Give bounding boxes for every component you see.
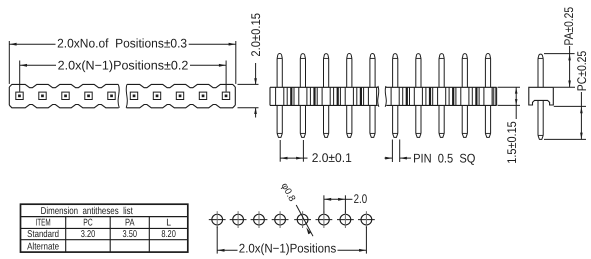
svg-text:ITEM: ITEM <box>36 218 51 229</box>
side view pin 9 <box>461 54 469 138</box>
svg-text:PA±0.25: PA±0.25 <box>562 7 576 46</box>
svg-text:Standard: Standard <box>27 229 59 240</box>
side view pin 2 <box>299 54 307 138</box>
top view body outline (right segment) <box>126 84 235 107</box>
bottom view hole 7 <box>337 211 354 228</box>
side view body (left segment) <box>270 87 378 105</box>
dimension 2.0xNo.of Positions ±0.3 <box>9 37 236 84</box>
dimension 2.0±0.15 (row width) <box>238 13 264 118</box>
bottom view hole 3 <box>251 211 268 228</box>
side view pin 6 <box>391 54 399 138</box>
svg-text:2.0x(N−1)Positions: 2.0x(N−1)Positions <box>239 242 336 256</box>
dimension PA±0.25 <box>544 7 576 87</box>
svg-text:Dimension antitheses list: Dimension antitheses list <box>41 206 133 217</box>
svg-text:PIN 0.5 SQ: PIN 0.5 SQ <box>413 152 475 166</box>
side view pin 7 <box>414 54 422 138</box>
side view pin 10 <box>484 54 492 138</box>
side view pin 4 <box>345 54 353 138</box>
svg-text:2.0x(N−1)Positions±0.2: 2.0x(N−1)Positions±0.2 <box>58 59 189 73</box>
bottom view hole 5 <box>294 211 311 228</box>
dimension 2.0±0.1 (pin pitch) <box>280 140 352 165</box>
bottom view hole 8 <box>358 211 375 228</box>
top view pin squares <box>16 92 230 99</box>
top view body outline (left segment) <box>9 84 118 107</box>
svg-text:Alternate: Alternate <box>27 241 59 252</box>
dimension 2.0 (hole pitch) <box>324 192 367 214</box>
side view pin 5 <box>368 54 376 138</box>
svg-text:2.0xNo.of Positions±0.3: 2.0xNo.of Positions±0.3 <box>57 37 187 51</box>
dimension 1.5±0.15 (body height) <box>498 87 520 163</box>
svg-text:1.5±0.15: 1.5±0.15 <box>505 121 519 164</box>
side view pin 8 <box>438 54 446 138</box>
side view unit separation lines <box>287 87 495 105</box>
side view pin 3 <box>322 54 330 138</box>
side view body (right segment) <box>386 87 497 105</box>
svg-text:3.20: 3.20 <box>81 229 96 240</box>
side view break lines <box>378 86 387 107</box>
bottom view hole 1 <box>209 211 226 228</box>
svg-text:PC: PC <box>83 218 93 229</box>
dimension PC±0.25 <box>544 51 589 140</box>
table: dimension antitheses list <box>21 204 188 252</box>
svg-text:2.0±0.1: 2.0±0.1 <box>312 151 352 165</box>
end view body cross-section <box>529 87 554 105</box>
svg-text:L: L <box>166 218 171 229</box>
end view pin <box>538 54 543 139</box>
dimension 2.0x(N-1)Positions (hole row) <box>217 227 366 256</box>
dimension 2.0x(N-1)Positions ±0.2 <box>20 59 226 92</box>
dimension PIN 0.5 SQ <box>385 140 476 166</box>
svg-text:2.0±0.15: 2.0±0.15 <box>249 13 263 57</box>
svg-text:PA: PA <box>125 218 135 229</box>
bottom view hole 6 <box>316 211 333 228</box>
top view break lines <box>118 84 127 107</box>
svg-text:3.50: 3.50 <box>123 229 138 240</box>
dimension φ0.8 leader <box>279 181 313 236</box>
svg-text:2.0: 2.0 <box>354 192 368 206</box>
bottom view hole 4 <box>272 211 289 228</box>
bottom view hole 2 <box>230 211 247 228</box>
svg-text:PC±0.25: PC±0.25 <box>575 51 589 91</box>
side view pin 1 <box>276 54 284 138</box>
svg-text:8.20: 8.20 <box>161 229 176 240</box>
